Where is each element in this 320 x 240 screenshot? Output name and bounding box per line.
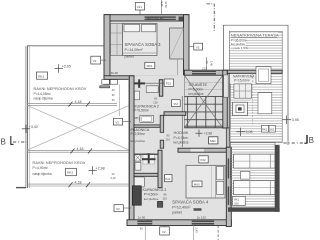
svg-text:RAVNI NEPROHODNI KROV: RAVNI NEPROHODNI KROV	[34, 87, 87, 91]
middle+south floor	[134, 75, 227, 224]
stairs top wall + window	[184, 70, 227, 75]
svg-text:ker.pločice: ker.pločice	[174, 140, 189, 144]
dark shower	[132, 186, 141, 205]
bedroom4 north wall	[178, 148, 230, 152]
svg-text:+3,95: +3,95	[290, 118, 299, 122]
svg-text:NENATKRIVENA TERASA: NENATKRIVENA TERASA	[231, 33, 279, 38]
bedroom4 south wall	[127, 220, 231, 226]
bedroom3 north wall	[104, 15, 189, 21]
bed bedroom3	[123, 24, 158, 56]
bath wall mid	[134, 173, 158, 176]
svg-text:ker.pločice: ker.pločice	[131, 139, 146, 143]
bedroom3 west wall	[104, 15, 110, 85]
svg-text:+3,08: +3,08	[243, 130, 252, 134]
svg-text:KUPAONICA 3: KUPAONICA 3	[143, 188, 167, 192]
RK2 S02 boxes	[261, 125, 268, 132]
svg-text:+2,98: +2,98	[204, 131, 212, 135]
pillows	[124, 24, 140, 32]
dim arrow bar	[194, 208, 202, 211]
svg-text:P=4,50m²: P=4,50m²	[144, 192, 159, 196]
svg-text:M60: M60	[194, 183, 200, 187]
pillar top right	[179, 17, 184, 22]
svg-text:S02: S02	[270, 127, 275, 131]
svg-text:2x 90: 2x 90	[138, 216, 146, 220]
lounger 1	[234, 154, 275, 168]
door leaf rect	[224, 75, 228, 97]
roof left wall	[16, 46, 30, 188]
dim line right of bedroom3	[206, 57, 208, 75]
svg-text:RK3: RK3	[38, 74, 44, 78]
west notch step	[100, 86, 110, 88]
dark bottom border	[228, 207, 280, 211]
svg-text:parket: parket	[172, 211, 181, 215]
svg-text:90 60: 90 60	[164, 2, 167, 9]
P22 box 2	[165, 175, 172, 182]
RK3 box	[37, 72, 48, 79]
section marker B right	[284, 142, 306, 144]
elevation +3,08	[236, 128, 244, 136]
svg-text:P22: P22	[165, 177, 170, 181]
svg-text:2,10: 2,10	[111, 176, 117, 180]
stairs steps	[184, 82, 223, 128]
svg-text:+2,95: +2,95	[62, 65, 71, 69]
svg-text:P=4,74m²: P=4,74m²	[174, 136, 190, 140]
VM washer box	[172, 100, 181, 107]
elevation +2,98	[88, 166, 96, 174]
svg-text:P=5,50m²: P=5,50m²	[134, 108, 150, 112]
M91 box	[209, 137, 218, 144]
svg-text:S02: S02	[234, 201, 239, 205]
svg-text:260/120+60: 260/120+60	[146, 17, 164, 21]
svg-text:P=4,90m²: P=4,90m²	[33, 166, 49, 170]
wall praonica/hodnik	[160, 115, 164, 132]
east wall strip beside terrace	[227, 73, 230, 128]
svg-text:V2: V2	[116, 207, 120, 211]
south window 1	[137, 221, 152, 225]
wall between bath and corridor	[159, 80, 163, 97]
svg-text:+3,42: +3,42	[29, 125, 38, 129]
svg-text:2,15: 2,15	[202, 67, 208, 71]
svg-text:M61: M61	[147, 64, 153, 68]
RK2 box	[66, 168, 77, 175]
svg-text:HODNIK: HODNIK	[174, 131, 189, 135]
wardrobe bedroom3	[170, 28, 184, 59]
svg-text:P=14,05m²: P=14,05m²	[34, 92, 52, 96]
elevation +3,42	[22, 125, 30, 133]
bench square	[256, 67, 271, 84]
svg-text:V2: V2	[196, 45, 200, 49]
table	[241, 171, 250, 179]
dark right border	[275, 145, 280, 212]
svg-text:4,18: 4,18	[75, 100, 82, 104]
nested square fixture	[233, 102, 248, 115]
dash-dot boundary top right	[207, 4, 215, 32]
svg-text:B: B	[309, 136, 314, 145]
notch leader line	[119, 84, 121, 116]
svg-text:parket: parket	[125, 55, 134, 59]
terrace outer border	[223, 25, 288, 145]
covered terrace labels	[230, 74, 257, 84]
svg-text:P22: P22	[166, 81, 172, 85]
svg-text:1,40: 1,40	[210, 61, 213, 66]
svg-text:M91: M91	[210, 139, 216, 143]
lower terrace hatch	[230, 143, 275, 209]
west wall (middle block)	[129, 76, 134, 225]
terrace mid wall	[227, 70, 282, 73]
svg-text:P=5,00m²: P=5,00m²	[189, 87, 205, 91]
elevation +3,95	[282, 116, 290, 124]
svg-text:B: B	[1, 138, 6, 147]
svg-text:4,18: 4,18	[75, 181, 82, 185]
outdoor counter	[234, 84, 252, 98]
V2 box right of bedroom3	[189, 46, 196, 48]
svg-text:P22: P22	[200, 158, 206, 162]
svg-text:210: 210	[153, 100, 158, 104]
closet bedroom3	[111, 24, 123, 56]
wall kupaonica2/praonica	[134, 125, 160, 127]
svg-text:V21: V21	[137, 5, 143, 9]
terrace title block	[230, 32, 277, 37]
V2 box west notch with leader	[121, 121, 131, 123]
bed bedroom4	[186, 165, 225, 198]
M60 box	[192, 181, 202, 187]
svg-text:P=14,00m²: P=14,00m²	[125, 48, 144, 52]
svg-text:P=12,40m²: P=12,40m²	[172, 206, 191, 210]
dimension line y104	[27, 103, 117, 105]
svg-text:u padu 1,5%: u padu 1,5%	[231, 46, 248, 50]
roof top edge line	[27, 45, 104, 47]
shower cross symbol	[143, 154, 154, 164]
svg-text:2x 120: 2x 120	[197, 216, 206, 220]
washbasin2	[134, 177, 144, 187]
svg-text:2,40: 2,40	[195, 228, 199, 234]
svg-text:Dv.90: Dv.90	[111, 71, 119, 75]
svg-text:2,15: 2,15	[160, 2, 163, 7]
RK1 box bottom	[233, 196, 246, 205]
wall bath3/bedroom4	[158, 150, 162, 188]
dashed divider	[252, 73, 254, 126]
svg-text:ker.pločice: ker.pločice	[189, 92, 204, 96]
east wall strip hodnik	[226, 128, 230, 147]
south window 2	[192, 221, 214, 225]
washer below cross	[134, 91, 139, 100]
svg-text:210: 210	[166, 137, 171, 141]
top dim cluster	[161, 0, 163, 15]
svg-text:+2,98: +2,98	[96, 166, 105, 170]
V21 box top with leader	[135, 3, 144, 11]
svg-text:ker.pločice: ker.pločice	[144, 197, 159, 201]
bedroom3 south wall	[104, 76, 176, 80]
P22 box bed4	[199, 156, 208, 163]
svg-text:P=15,00m²: P=15,00m²	[234, 79, 250, 83]
se corner wall piece	[184, 72, 190, 80]
svg-text:RAVNI NEPROHODNI KROV: RAVNI NEPROHODNI KROV	[33, 161, 86, 165]
elevation +2,95	[55, 64, 64, 72]
elevation +2,98 hodnik	[195, 130, 202, 137]
window sill boxes below s wall	[102, 80, 110, 85]
bathroom2 shower rect	[146, 86, 158, 93]
svg-text:V2: V2	[162, 230, 166, 234]
terrace hatch	[229, 31, 282, 142]
M61 box	[145, 62, 155, 68]
svg-text:RK2: RK2	[67, 171, 73, 175]
stairs floor	[184, 75, 223, 128]
svg-text:P=2,50m²: P=2,50m²	[131, 132, 146, 136]
wall stub south	[157, 201, 163, 207]
outer skin line	[104, 15, 189, 84]
north window	[145, 16, 176, 20]
washbasin fixture	[140, 116, 154, 123]
leader lines bottom	[144, 224, 146, 240]
bedroom3 east wall	[184, 15, 190, 80]
svg-text:V2: V2	[115, 120, 119, 124]
bidet	[135, 163, 141, 171]
dimension line y185	[27, 184, 131, 186]
wc	[135, 154, 141, 161]
white planter	[258, 93, 272, 114]
V2 box west of bedroom3	[101, 59, 106, 61]
svg-text:RK1: RK1	[234, 197, 240, 201]
roof X cross	[28, 106, 130, 151]
svg-text:RK2: RK2	[262, 127, 268, 131]
svg-text:nasip šljunka: nasip šljunka	[33, 172, 52, 176]
P22 box	[164, 79, 173, 86]
pillows bedroom4	[217, 167, 224, 180]
svg-text:STUBIŠTE: STUBIŠTE	[189, 82, 208, 87]
dimension line y151	[27, 150, 131, 152]
svg-text:4,18: 4,18	[77, 147, 84, 151]
svg-text:V2: V2	[93, 59, 97, 63]
svg-text:VM: VM	[173, 102, 178, 106]
V2 box lower west + leader	[122, 207, 132, 209]
lounger 2	[234, 181, 275, 195]
svg-text:PRAONICA: PRAONICA	[131, 128, 150, 132]
stairs right wall	[223, 70, 228, 128]
bedroom3 floor	[110, 21, 184, 76]
bathroom2 fixture cross	[134, 79, 145, 87]
bedroom4 east wall	[226, 147, 231, 226]
svg-text:210: 210	[163, 197, 168, 201]
svg-text:SPAVAĆA SOBA 3: SPAVAĆA SOBA 3	[125, 42, 162, 47]
svg-text:nasip šljunka: nasip šljunka	[34, 96, 53, 100]
wall hodnik north	[164, 112, 186, 116]
bath3 north wall line	[134, 154, 158, 155]
svg-text:SPAVAĆA SOBA 4: SPAVAĆA SOBA 4	[172, 199, 209, 204]
V2 box bottom	[164, 226, 166, 227]
